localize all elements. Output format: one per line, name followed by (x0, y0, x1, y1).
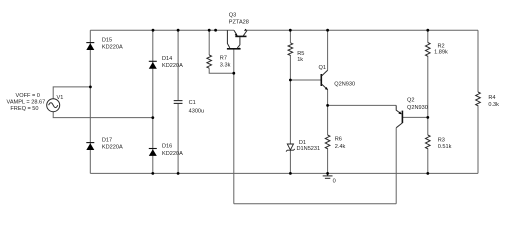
transistor Q2 Q2N930 (396, 105, 402, 127)
resistor R2 1.89k zigzag (425, 43, 430, 57)
wire C1 branch (177, 30, 179, 173)
junction top rail stub (214, 29, 217, 32)
resistor R6 2.4k zigzag (325, 135, 330, 149)
svg-text:3.3k: 3.3k (220, 63, 231, 69)
svg-text:D1: D1 (299, 140, 306, 146)
wire top rail left segment (90, 29, 234, 31)
svg-text:R4: R4 (488, 95, 495, 101)
ground 0 (323, 173, 333, 178)
junction R7 Q3 base (232, 72, 235, 75)
svg-text:2.4k: 2.4k (335, 144, 346, 150)
junction bottom rail D1 (289, 172, 292, 175)
svg-text:KD220A: KD220A (102, 45, 123, 51)
svg-text:R3: R3 (438, 138, 445, 144)
wire bottom rail (90, 172, 478, 174)
zener diode D1 D1N5231 (286, 144, 295, 152)
resistor R5 1k zigzag (288, 43, 293, 56)
junction V1 plus left line (89, 86, 92, 89)
svg-text:1k: 1k (297, 57, 303, 63)
junction Q2 base divider (426, 116, 429, 119)
svg-text:D16: D16 (162, 144, 172, 150)
svg-text:D1N5231: D1N5231 (297, 146, 321, 152)
svg-text:R7: R7 (220, 55, 227, 61)
wire right branch R4 vertical (477, 30, 479, 173)
svg-text:KD220A: KD220A (162, 151, 183, 157)
svg-text:1.89k: 1.89k (434, 49, 448, 55)
svg-text:0.3k: 0.3k (488, 102, 499, 108)
wire Q1 emitter to Q2 (328, 104, 397, 106)
voltage source V1 (47, 99, 60, 112)
junction bottom rail D16 (151, 172, 154, 175)
svg-text:V1: V1 (57, 95, 64, 101)
wire R7 branch (209, 30, 234, 73)
junction bottom rail C1 (177, 172, 180, 175)
junction top rail D14 line (152, 29, 155, 32)
wire V1 bottom lead (53, 112, 153, 118)
diode D14 KD220A (149, 61, 157, 68)
wire left bridge vertical (89, 30, 91, 173)
svg-text:R6: R6 (335, 137, 342, 143)
wire R5 D1 branch (289, 30, 291, 173)
svg-text:Q2N930: Q2N930 (334, 81, 355, 87)
wire Q1 base (290, 79, 321, 81)
wire Q3 base down (233, 50, 235, 204)
svg-text:KD220A: KD220A (102, 145, 123, 151)
diode D16 KD220A (149, 149, 157, 156)
resistor R3 0.51k zigzag (425, 135, 430, 149)
wire Q2 emitter down (395, 128, 397, 204)
junction Q1 emitter node (326, 104, 329, 107)
junction top rail R7 (208, 29, 211, 32)
wire V1 top lead (53, 87, 90, 99)
wire bottom feedback (234, 203, 396, 205)
svg-text:0: 0 (333, 179, 336, 185)
wire Q1 emitter down (327, 90, 329, 106)
wire Q1 collector up (327, 30, 329, 70)
svg-text:D15: D15 (102, 37, 112, 43)
junction top rail R5 (289, 29, 292, 32)
svg-text:Q2N930: Q2N930 (407, 105, 428, 111)
junction Q1 base R5 D1 (289, 79, 292, 82)
svg-text:VAMPL = 28.67: VAMPL = 28.67 (7, 100, 46, 106)
junction bottom rail R6 ground (326, 172, 329, 175)
svg-text:4300u: 4300u (189, 108, 205, 114)
svg-text:D14: D14 (162, 56, 172, 62)
capacitor C1 plates (174, 101, 183, 104)
svg-text:D17: D17 (102, 137, 112, 143)
junction top rail R2 (426, 29, 429, 32)
svg-text:Q3: Q3 (229, 13, 236, 19)
svg-text:0.51k: 0.51k (438, 144, 452, 150)
junction top rail Q1 collector (326, 29, 329, 32)
svg-text:FREQ = 50: FREQ = 50 (10, 106, 38, 112)
wire middle bridge vertical (152, 30, 154, 173)
transistor Q3 PZTA28 darlington (227, 29, 247, 50)
diode D17 KD220A (86, 143, 94, 150)
junction V1 minus middle line (151, 116, 154, 119)
svg-text:KD220A: KD220A (162, 63, 183, 69)
wire divider R2 R3 (427, 30, 429, 173)
wire top rail right segment (247, 29, 478, 31)
junction top rail C1 line (177, 29, 180, 32)
wire Q2 base to divider (403, 116, 428, 118)
resistor R4 0.3k zigzag (476, 92, 481, 106)
svg-text:VOFF = 0: VOFF = 0 (16, 93, 40, 99)
wire R6 branch (327, 105, 329, 173)
svg-text:C1: C1 (189, 100, 196, 106)
svg-text:PZTA28: PZTA28 (229, 20, 249, 26)
diode D15 KD220A (86, 43, 94, 50)
transistor Q1 Q2N930 (321, 70, 328, 90)
svg-text:Q1: Q1 (319, 65, 326, 71)
svg-text:Q2: Q2 (407, 98, 414, 104)
junction bottom rail R3 (426, 172, 429, 175)
resistor R7 3.3k zigzag (207, 55, 212, 68)
